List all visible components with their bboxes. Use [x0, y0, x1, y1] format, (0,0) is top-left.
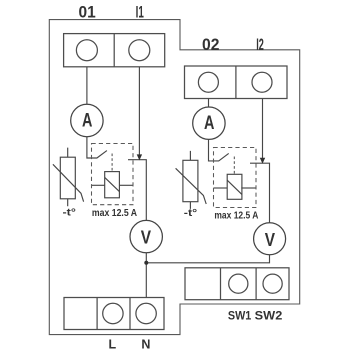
svg-text:02: 02	[202, 35, 219, 54]
svg-text:I1: I1	[136, 3, 144, 22]
svg-text:V: V	[141, 227, 152, 248]
svg-text:I2: I2	[256, 35, 264, 54]
svg-text:SW2: SW2	[255, 310, 283, 322]
svg-text:max 12.5 A: max 12.5 A	[214, 211, 258, 222]
svg-text:-t°: -t°	[63, 208, 76, 219]
svg-text:max 12.5 A: max 12.5 A	[92, 208, 137, 219]
svg-text:01: 01	[79, 3, 96, 22]
svg-text:N: N	[141, 338, 150, 350]
svg-text:SW1: SW1	[228, 310, 252, 322]
svg-text:A: A	[82, 110, 92, 131]
svg-text:V: V	[265, 229, 276, 250]
svg-text:A: A	[204, 113, 214, 134]
svg-text:-t°: -t°	[184, 208, 197, 219]
svg-text:L: L	[108, 338, 116, 350]
